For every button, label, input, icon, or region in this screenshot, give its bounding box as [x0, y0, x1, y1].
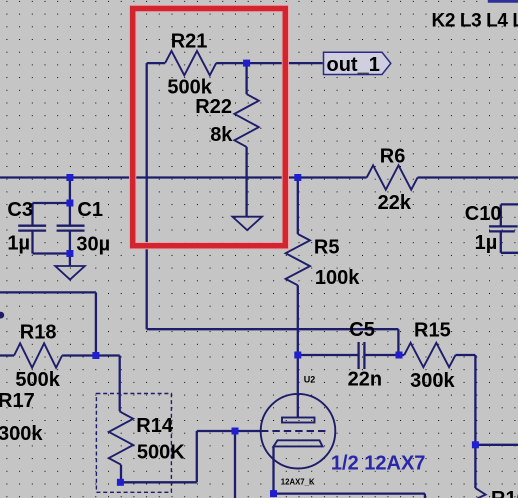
svg-text:R16: R16: [491, 488, 518, 498]
svg-text:1µ: 1µ: [475, 232, 498, 254]
svg-text:500K: 500K: [137, 441, 185, 463]
svg-text:22k: 22k: [378, 192, 412, 214]
svg-text:8k: 8k: [210, 124, 233, 146]
svg-text:300k: 300k: [0, 423, 43, 445]
svg-text:U2: U2: [304, 375, 316, 385]
svg-text:R5: R5: [314, 237, 340, 259]
svg-text:out_1: out_1: [327, 54, 380, 76]
svg-text:C5: C5: [349, 319, 375, 341]
svg-text:C10: C10: [465, 203, 502, 225]
svg-text:K2 L3 L4 L5: K2 L3 L4 L5: [432, 11, 518, 32]
svg-text:C1: C1: [77, 199, 103, 221]
svg-text:R17: R17: [0, 390, 35, 412]
svg-text:R6: R6: [380, 146, 406, 168]
svg-text:1/2 12AX7: 1/2 12AX7: [331, 452, 426, 474]
svg-text:500k: 500k: [15, 369, 60, 391]
svg-text:500k: 500k: [167, 77, 212, 99]
svg-text:300k: 300k: [410, 370, 455, 392]
svg-text:22n: 22n: [348, 369, 382, 391]
svg-text:R21: R21: [171, 31, 208, 53]
svg-text:R14: R14: [136, 415, 174, 437]
svg-text:R18: R18: [20, 322, 57, 344]
svg-text:C3: C3: [7, 199, 33, 221]
svg-text:R22: R22: [195, 96, 232, 118]
svg-text:12AX7_K: 12AX7_K: [281, 477, 315, 486]
svg-text:1µ: 1µ: [7, 233, 30, 255]
svg-text:100k: 100k: [315, 267, 360, 289]
svg-text:R15: R15: [414, 319, 451, 341]
svg-text:30µ: 30µ: [76, 234, 110, 256]
